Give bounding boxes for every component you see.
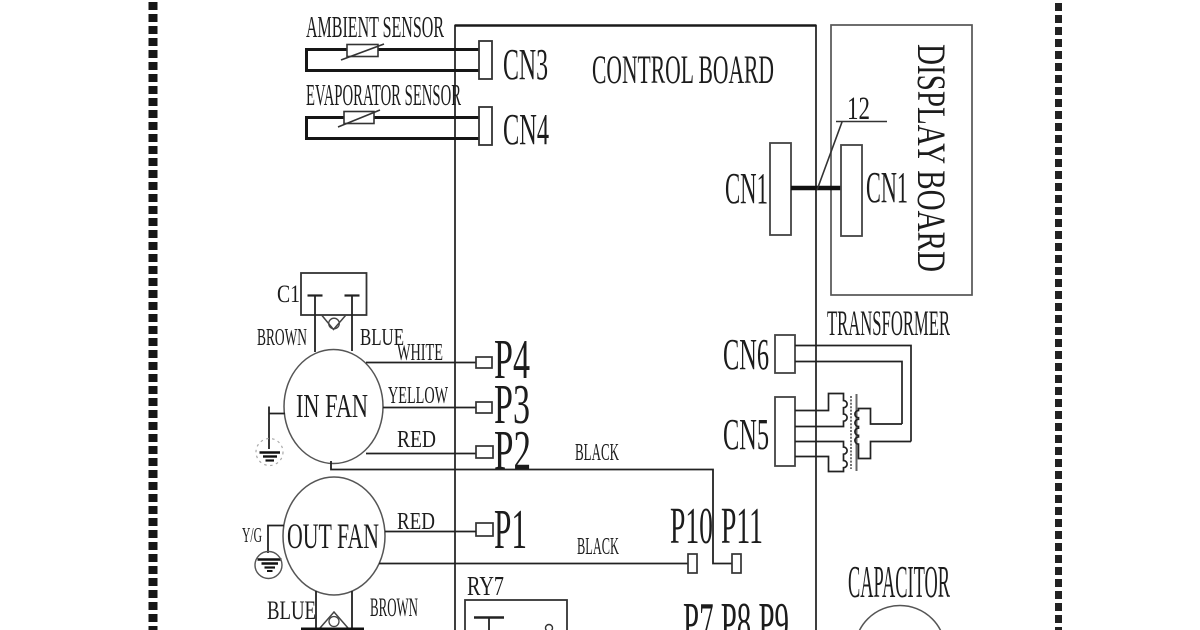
- connector CN6: [775, 335, 795, 373]
- transformer T1 primary winding upper: [795, 394, 847, 427]
- svg-text:CN4: CN4: [503, 105, 549, 154]
- ambient sensor thermistor: [341, 44, 384, 60]
- display board outline: [831, 25, 972, 295]
- P3 stub connector: [476, 402, 492, 413]
- wire CN6 lower to transformer secondary: [795, 362, 902, 425]
- svg-text:CN6: CN6: [723, 330, 769, 379]
- svg-text:C1: C1: [277, 281, 300, 308]
- wire CN6 upper to transformer secondary: [795, 346, 911, 442]
- svg-text:BLUE: BLUE: [267, 596, 316, 625]
- wire yellow: [383, 407, 476, 409]
- P4 stub connector: [476, 357, 492, 368]
- leader line for label 12: [817, 122, 887, 191]
- evaporator sensor thermistor: [338, 110, 380, 127]
- C1 terminal left: [308, 296, 323, 353]
- capacitor (bottom right): [855, 606, 946, 630]
- capacitor C1 box: [301, 273, 367, 315]
- svg-text:CN5: CN5: [723, 410, 769, 459]
- P2 stub connector: [476, 446, 493, 458]
- connector CN1 on control board: [770, 143, 791, 235]
- connector CN4: [479, 107, 492, 145]
- ground wire (in fan): [269, 407, 285, 450]
- wire red (out fan): [385, 531, 476, 533]
- svg-text:BROWN: BROWN: [257, 325, 307, 351]
- svg-text:EVAPORATOR SENSOR: EVAPORATOR SENSOR: [306, 77, 461, 112]
- svg-text:P10: P10: [670, 498, 713, 555]
- control board top edge: [455, 24, 816, 27]
- svg-text:BLACK: BLACK: [577, 534, 619, 560]
- wire black lower (out fan to P10): [379, 563, 688, 565]
- svg-text:P2: P2: [494, 420, 531, 482]
- svg-text:RED: RED: [397, 427, 436, 453]
- check mark under C1: [322, 316, 346, 330]
- svg-text:CN1: CN1: [866, 163, 908, 212]
- svg-text:CN3: CN3: [503, 40, 548, 89]
- svg-text:YELLOW: YELLOW: [388, 383, 448, 409]
- svg-text:RY7: RY7: [467, 571, 504, 601]
- plug symbol under out fan: [301, 612, 364, 629]
- P10 stub connector: [688, 554, 697, 573]
- transformer core: [851, 394, 857, 471]
- ambient sensor cable: [307, 50, 480, 71]
- ground symbol (out fan): [255, 552, 282, 579]
- transformer secondary winding: [855, 409, 911, 459]
- connector CN3: [479, 41, 492, 79]
- svg-text:CONTROL BOARD: CONTROL BOARD: [592, 47, 774, 92]
- svg-text:DISPLAY BOARD: DISPLAY BOARD: [909, 44, 954, 272]
- right perforation border: [1055, 3, 1062, 630]
- svg-text:12: 12: [847, 91, 870, 127]
- svg-text:P1: P1: [494, 499, 527, 561]
- svg-text:BLACK: BLACK: [575, 440, 619, 466]
- svg-text:IN FAN: IN FAN: [296, 388, 368, 425]
- svg-text:OUT FAN: OUT FAN: [287, 516, 379, 556]
- IN FAN motor: [284, 350, 383, 464]
- C1 terminal right: [345, 296, 360, 352]
- evaporator sensor cable: [307, 118, 480, 139]
- transformer T1 primary winding lower: [795, 442, 847, 472]
- wire white: [366, 362, 476, 364]
- wire black upper (in fan to P11): [331, 461, 732, 564]
- left perforation border: [149, 2, 158, 630]
- svg-text:Y/G: Y/G: [242, 523, 262, 547]
- relay RY7 coil terminal: [474, 618, 553, 630]
- ground wire (out fan): [268, 526, 284, 554]
- svg-text:BROWN: BROWN: [370, 593, 418, 622]
- svg-text:P11: P11: [721, 498, 763, 555]
- svg-text:CN1: CN1: [725, 164, 768, 213]
- P11 stub connector: [732, 554, 741, 573]
- connector CN1 on display board: [841, 145, 862, 236]
- svg-text:TRANSFORMER: TRANSFORMER: [827, 303, 950, 343]
- connector CN5: [775, 397, 795, 466]
- control board outline: [455, 26, 816, 630]
- relay RY7 box: [465, 600, 567, 630]
- svg-text:AMBIENT SENSOR: AMBIENT SENSOR: [306, 9, 444, 44]
- ground symbol (in fan): [256, 439, 283, 466]
- wire red (in fan): [366, 453, 476, 455]
- OUT FAN motor: [283, 477, 385, 595]
- svg-text:P7 P8 P9: P7 P8 P9: [683, 592, 789, 630]
- P1 stub connector: [476, 523, 493, 536]
- out fan lead right: [351, 591, 353, 628]
- CN1-CN1 ribbon wire: [791, 186, 841, 191]
- svg-text:CAPACITOR: CAPACITOR: [848, 556, 950, 607]
- out fan lead left: [315, 591, 317, 628]
